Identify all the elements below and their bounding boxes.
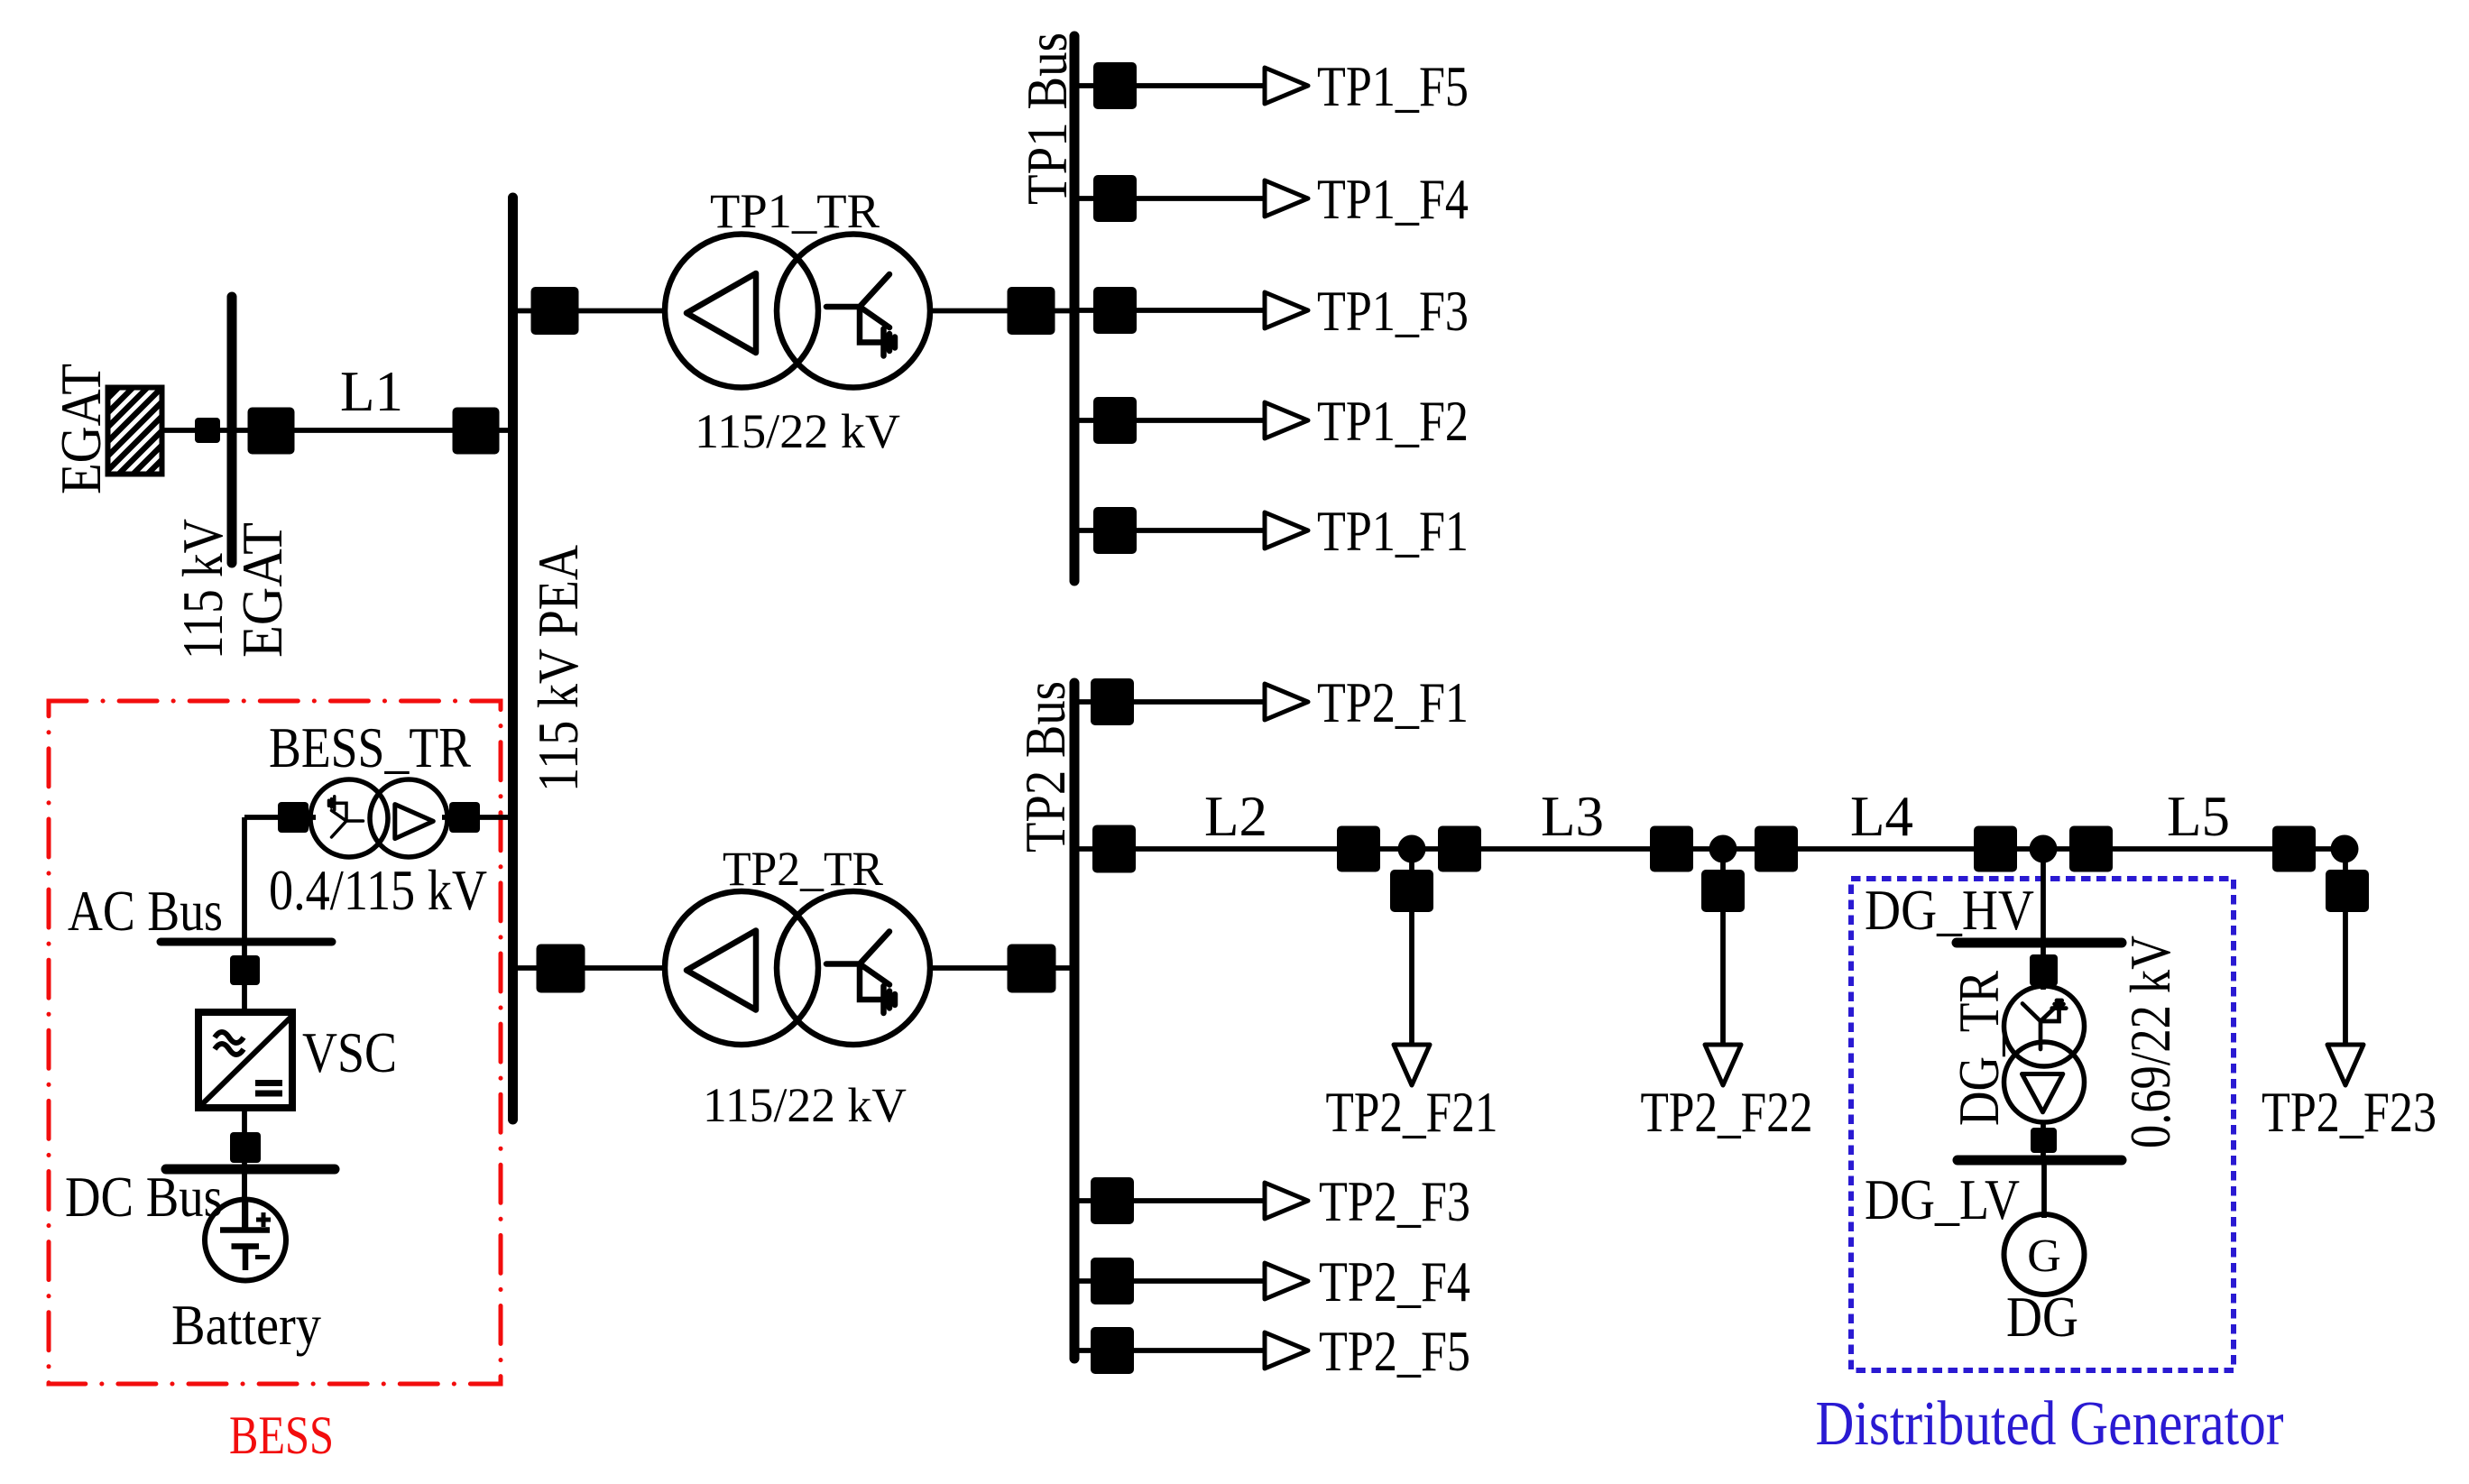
wire feeder TP2_F3 — [1074, 1198, 1267, 1203]
wire drop to load TP2_F21 — [1409, 849, 1414, 1046]
wire feeder TP1_F5 — [1074, 83, 1267, 88]
wire DG_TR to DG_LV bus — [2041, 1120, 2046, 1160]
battery symbol — [205, 1200, 286, 1281]
breaker TP1_F5 — [1093, 62, 1137, 109]
breaker TP2_F1 — [1091, 678, 1134, 725]
breaker EGAT small — [195, 418, 220, 443]
arrow TP2_F5 — [1265, 1332, 1308, 1369]
svg-text:115 kV PEA: 115 kV PEA — [527, 545, 590, 792]
wire drop junction L4 to DG_HV bus — [2041, 849, 2046, 943]
svg-text:VSC: VSC — [302, 1021, 397, 1084]
svg-text:TP2 Bus: TP2 Bus — [1014, 681, 1077, 853]
junction node L5 end — [2331, 835, 2359, 863]
wire feeder TP2_F1 — [1074, 699, 1267, 705]
svg-text:TP1_F5: TP1_F5 — [1317, 55, 1469, 118]
wire PEA bus to TP2_TR — [518, 965, 668, 971]
breaker L1 right — [453, 408, 500, 455]
wire feeder TP2_F4 — [1074, 1278, 1267, 1284]
svg-text:Distributed Generator: Distributed Generator — [1816, 1389, 2284, 1459]
svg-text:L2: L2 — [1204, 785, 1267, 848]
svg-text:DG: DG — [2006, 1286, 2078, 1349]
arrow load TP2_F22 — [1705, 1045, 1741, 1085]
EGAT source (hatched box) — [22, 365, 263, 492]
junction node L2-L3 — [1398, 835, 1426, 863]
svg-text:Battery: Battery — [171, 1294, 321, 1357]
breaker TP2_F3 — [1091, 1177, 1134, 1224]
breaker TP1_F1 — [1093, 507, 1137, 554]
breaker TP1_F3 — [1093, 287, 1137, 334]
svg-text:G: G — [2027, 1231, 2061, 1282]
breaker load TP2_F21 — [1390, 870, 1433, 912]
breaker TP2_TR LV — [1008, 945, 1056, 993]
svg-text:TP1_F1: TP1_F1 — [1317, 500, 1469, 563]
arrow TP1_F3 — [1265, 292, 1308, 328]
arrow TP2_F3 — [1265, 1183, 1308, 1219]
svg-text:DG_HV: DG_HV — [1865, 879, 2034, 942]
arrow TP1_F5 — [1265, 68, 1308, 104]
svg-text:L3: L3 — [1541, 785, 1604, 848]
wire EGAT to EGAT bus and line L1 to PEA bus — [164, 428, 508, 433]
breaker DG_HV to DG_TR — [2030, 954, 2058, 986]
svg-text:TP2_F22: TP2_F22 — [1641, 1081, 1813, 1144]
arrow TP1_F4 — [1265, 180, 1308, 217]
transformer TP2_TR — [665, 891, 930, 1045]
svg-text:0.4/115 kV: 0.4/115 kV — [269, 859, 487, 922]
breaker BESS_TR HV — [449, 802, 480, 833]
bus TP2 Bus — [1070, 683, 1080, 1359]
breaker TP1_TR LV — [1008, 287, 1055, 335]
svg-text:TP2_F5: TP2_F5 — [1319, 1320, 1470, 1383]
breaker L5 start — [2069, 826, 2113, 872]
breaker L4 end — [1974, 826, 2017, 872]
svg-text:DG_LV: DG_LV — [1865, 1168, 2020, 1231]
bus 115 kV EGAT — [227, 297, 237, 563]
wire feeder TP2_F5 — [1074, 1348, 1267, 1353]
svg-text:L1: L1 — [340, 360, 403, 423]
breaker L5 end — [2272, 826, 2316, 872]
svg-text:TP1_F3: TP1_F3 — [1317, 280, 1469, 343]
Distributed Generator enclosure box (blue dashed) — [1851, 879, 2234, 1370]
wire feeder TP1_F2 — [1074, 418, 1267, 423]
arrow load TP2_F23 — [2327, 1045, 2363, 1085]
breaker TP1_F4 — [1093, 175, 1137, 222]
breaker load TP2_F22 — [1701, 870, 1745, 912]
wire feeder TP1_F3 — [1074, 308, 1267, 313]
svg-text:TP2_F3: TP2_F3 — [1319, 1170, 1470, 1233]
transformer TP1_TR — [665, 235, 930, 388]
bus DC Bus — [166, 1165, 335, 1175]
svg-text:TP1_TR: TP1_TR — [710, 184, 880, 238]
wire drop to load TP2_F23 — [2343, 849, 2348, 1046]
wire BESS_TR right lead to PEA bus — [442, 815, 511, 820]
breaker TP1_TR HV — [531, 287, 579, 335]
svg-text:DG_TR: DG_TR — [1948, 971, 2011, 1126]
bus AC Bus — [161, 938, 332, 946]
bus TP1 Bus — [1070, 36, 1080, 581]
breaker load TP2_F23 — [2326, 870, 2369, 912]
arrow TP2_F4 — [1265, 1263, 1308, 1299]
wire AC bus to VSC — [242, 942, 247, 1010]
junction node L3-L4 — [1709, 835, 1737, 863]
svg-text:BESS: BESS — [229, 1406, 334, 1465]
breaker AC bus to VSC — [230, 955, 260, 985]
breaker BESS_TR LV — [278, 802, 309, 833]
breaker L3 end — [1650, 826, 1693, 872]
svg-text:TP2_F23: TP2_F23 — [2262, 1081, 2437, 1144]
breaker L1 left — [248, 408, 295, 455]
arrow load TP2_F21 — [1394, 1045, 1430, 1085]
generator DG circle G — [2004, 1214, 2085, 1295]
breaker L2 end — [1337, 826, 1380, 872]
svg-text:L4: L4 — [1850, 785, 1913, 848]
svg-text:TP2_TR: TP2_TR — [723, 842, 883, 896]
breaker L3 start — [1438, 826, 1481, 872]
svg-text:115 kV: 115 kV — [171, 519, 235, 659]
breaker VSC to DC bus — [230, 1132, 261, 1163]
arrow TP2_F1 — [1265, 684, 1308, 720]
wire main line L2 L3 L4 L5 — [1074, 846, 2345, 852]
svg-text:TP1 Bus: TP1 Bus — [1016, 32, 1079, 205]
wire feeder TP1_F1 — [1074, 528, 1267, 533]
wire PEA bus to TP1_TR — [518, 309, 668, 314]
svg-text:115/22 kV: 115/22 kV — [695, 404, 900, 458]
junction node L4-L5 — [2030, 835, 2058, 863]
transformer BESS_TR — [310, 779, 447, 857]
svg-text:EGAT: EGAT — [231, 522, 294, 658]
arrow TP1_F1 — [1265, 512, 1308, 548]
BESS enclosure box (red dash-dot) — [49, 701, 501, 1384]
transformer DG_TR — [2004, 986, 2085, 1122]
svg-text:TP1_F2: TP1_F2 — [1317, 390, 1469, 453]
bus 115 kV PEA — [508, 198, 518, 1120]
bus DG_LV — [1958, 1156, 2122, 1166]
wire BESS_TR left lead — [244, 815, 316, 820]
svg-text:TP2_F4: TP2_F4 — [1319, 1250, 1470, 1313]
wire DC bus to battery — [242, 1169, 247, 1231]
breaker TP2_F5 — [1091, 1327, 1134, 1374]
wire BESS_TR down to AC bus — [242, 817, 247, 942]
svg-text:TP2_F21: TP2_F21 — [1326, 1081, 1498, 1144]
wire feeder TP1_F4 — [1074, 196, 1267, 201]
svg-text:AC Bus: AC Bus — [68, 880, 223, 943]
breaker TP2_TR HV — [537, 945, 585, 993]
svg-text:TP2_F1: TP2_F1 — [1317, 671, 1469, 734]
wire TP1_TR to TP1 bus — [927, 309, 1074, 314]
svg-text:EGAT: EGAT — [50, 364, 113, 494]
VSC converter — [198, 1012, 293, 1108]
svg-text:DC Bus: DC Bus — [65, 1166, 223, 1229]
svg-text:BESS_TR: BESS_TR — [269, 716, 471, 779]
bus DG_HV — [1957, 938, 2122, 948]
breaker TP1_F2 — [1093, 397, 1137, 444]
svg-text:L5: L5 — [2167, 785, 2230, 848]
breaker line L2 — [1092, 825, 1136, 873]
breaker L4 start — [1755, 826, 1798, 872]
svg-text:115/22 kV: 115/22 kV — [703, 1078, 907, 1132]
arrow TP1_F2 — [1265, 402, 1308, 438]
wire VSC to DC bus — [242, 1110, 247, 1169]
svg-text:TP1_F4: TP1_F4 — [1317, 168, 1469, 231]
wire DG_HV bus to DG_TR — [2041, 943, 2046, 990]
wire TP2_TR to TP2 bus — [927, 965, 1074, 971]
wire DG_LV bus to generator G — [2041, 1160, 2047, 1218]
wire drop to load TP2_F22 — [1720, 849, 1726, 1046]
breaker DG_TR to DG_LV — [2031, 1128, 2057, 1153]
breaker TP2_F4 — [1091, 1258, 1134, 1304]
svg-text:0.69/22 kV: 0.69/22 kV — [2119, 936, 2182, 1148]
